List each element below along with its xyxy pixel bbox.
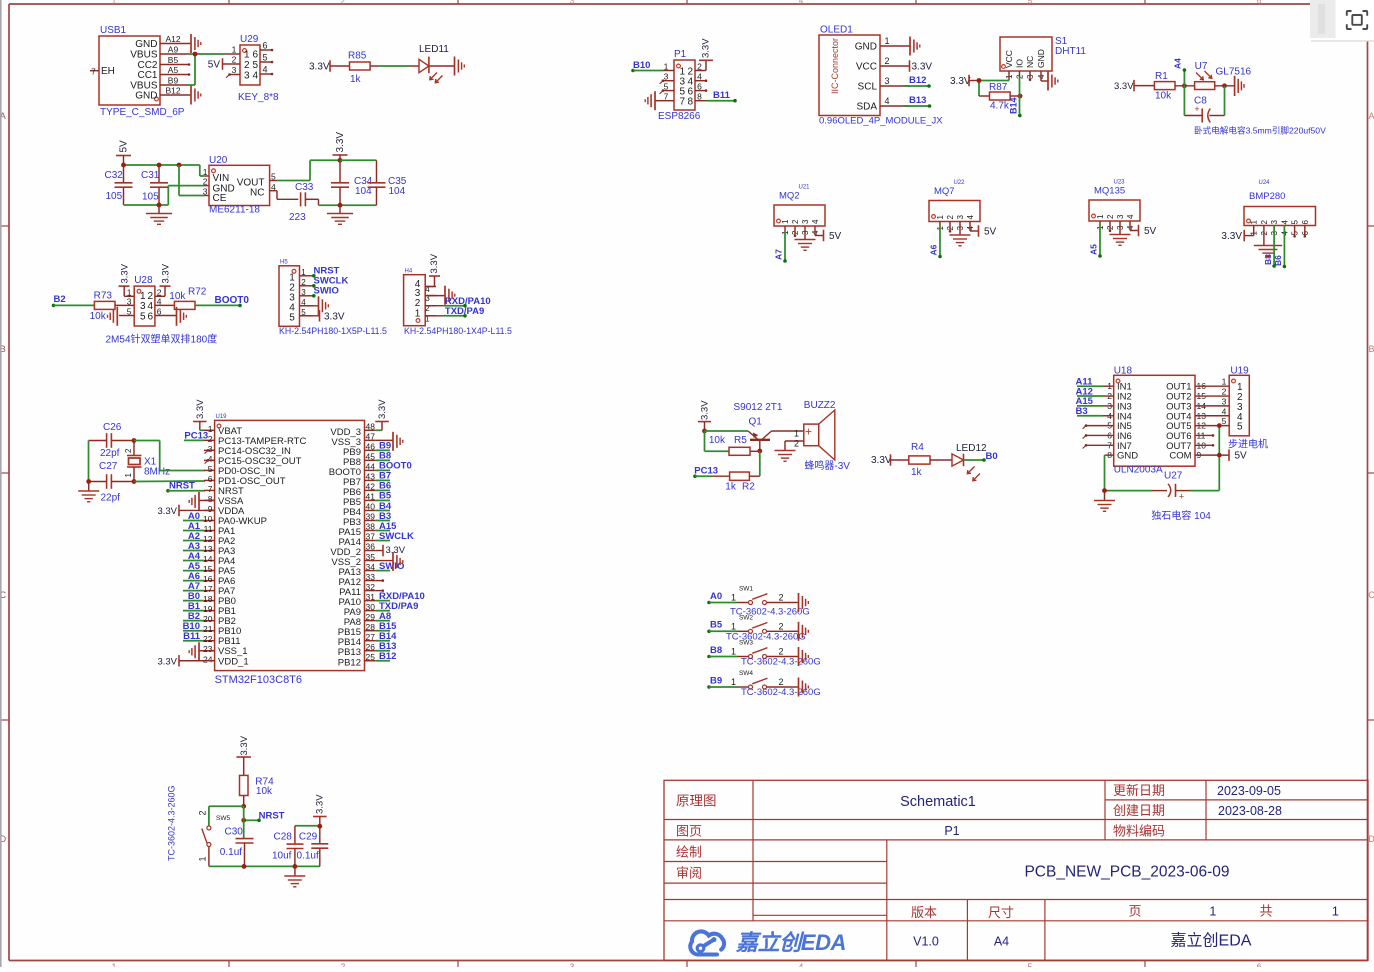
wire bottom bus <box>209 865 320 867</box>
resistor R73 10k <box>90 290 135 322</box>
svg-text:3.3V: 3.3V <box>315 794 326 814</box>
svg-text:B14: B14 <box>1009 97 1019 114</box>
junction C34 bottom <box>338 203 343 208</box>
svg-text:4: 4 <box>885 96 890 106</box>
svg-text:B10: B10 <box>633 60 650 71</box>
ground at U18 <box>1094 491 1115 512</box>
svg-text:GND: GND <box>855 42 877 53</box>
net label NRST at H5 pin1 <box>312 265 340 277</box>
svg-text:1: 1 <box>1096 214 1105 219</box>
svg-text:C32: C32 <box>105 170 124 181</box>
svg-text:KH-2.54PH180-1X5P-L11.5: KH-2.54PH180-1X5P-L11.5 <box>279 326 387 336</box>
svg-text:25: 25 <box>366 652 376 662</box>
svg-text:P1: P1 <box>944 824 959 838</box>
svg-text:B9: B9 <box>710 675 722 686</box>
svg-text:1: 1 <box>1332 905 1339 919</box>
svg-text:PCB_NEW_PCB_2023-06-09: PCB_NEW_PCB_2023-06-09 <box>1024 864 1229 881</box>
svg-text:4: 4 <box>799 0 804 6</box>
svg-text:D: D <box>1368 834 1374 844</box>
svg-text:3: 3 <box>127 296 132 306</box>
svg-text:3: 3 <box>244 71 250 82</box>
svg-text:H4: H4 <box>405 269 413 275</box>
svg-text:7: 7 <box>664 92 669 102</box>
svg-text:5: 5 <box>1028 0 1033 6</box>
net label A15 <box>376 521 397 532</box>
net label A0 <box>183 511 204 522</box>
svg-text:2: 2 <box>778 593 783 603</box>
net label A4 <box>183 551 204 562</box>
svg-text:PC13: PC13 <box>184 431 208 442</box>
svg-text:GND: GND <box>1117 451 1138 462</box>
svg-text:PC13: PC13 <box>694 466 718 477</box>
wire NC to C33 <box>270 191 299 200</box>
svg-text:1: 1 <box>244 50 250 61</box>
switch SW1 TC-3602 <box>707 586 810 618</box>
svg-text:TC-3602-4.3-260G: TC-3602-4.3-260G <box>726 632 806 643</box>
svg-text:19: 19 <box>203 604 213 614</box>
svg-text:B12: B12 <box>379 651 396 662</box>
svg-text:10uf: 10uf <box>272 851 292 862</box>
net label B3 at U18 pin4 <box>1076 406 1114 417</box>
resistor R72 10k <box>155 287 207 310</box>
svg-text:5: 5 <box>1291 220 1300 225</box>
svg-text:47: 47 <box>366 432 376 442</box>
svg-text:5: 5 <box>1237 422 1243 433</box>
wire net A6 at U22 pin1 <box>929 227 942 259</box>
svg-text:16: 16 <box>203 574 213 584</box>
wire R4 to LED12 <box>930 459 952 461</box>
net label B5 <box>376 491 392 502</box>
svg-text:2: 2 <box>341 963 346 968</box>
svg-text:A4: A4 <box>1173 58 1183 69</box>
svg-text:2: 2 <box>946 215 955 220</box>
svg-text:KEY_8*8: KEY_8*8 <box>238 92 279 103</box>
svg-text:36: 36 <box>366 542 376 552</box>
svg-text:5V: 5V <box>1144 226 1157 237</box>
connector U29 KEY_8*8 <box>226 34 279 103</box>
svg-text:28: 28 <box>366 622 376 632</box>
svg-text:U24: U24 <box>1258 180 1270 186</box>
net label B2 <box>52 294 95 307</box>
capacitor C29 0.1uf <box>297 827 329 867</box>
wire to Q1 emitter <box>705 430 749 432</box>
svg-text:3.3V: 3.3V <box>157 506 177 517</box>
power 3.3V at Q1 <box>698 400 711 431</box>
svg-text:USB1: USB1 <box>100 25 127 36</box>
svg-text:B5: B5 <box>168 55 179 65</box>
net label A15 at U18 pin3 <box>1076 396 1114 407</box>
wire ground bus right <box>319 204 377 206</box>
junction Q1 base node <box>757 449 762 454</box>
svg-text:5V: 5V <box>984 227 997 238</box>
LED LED11 <box>419 44 454 83</box>
svg-text:5: 5 <box>140 311 146 322</box>
svg-text:P1: P1 <box>674 49 687 60</box>
svg-text:1: 1 <box>885 36 890 46</box>
svg-text:版本: 版本 <box>911 905 937 920</box>
svg-text:B5: B5 <box>710 620 723 631</box>
svg-text:31: 31 <box>366 592 376 602</box>
svg-text:5V: 5V <box>1235 451 1248 462</box>
wire VOUT to 3.3V <box>270 160 340 180</box>
svg-text:48: 48 <box>366 422 376 432</box>
svg-text:物料编码: 物料编码 <box>1113 824 1165 839</box>
svg-text:C26: C26 <box>103 422 122 433</box>
svg-text:5: 5 <box>289 313 295 324</box>
svg-text:B13: B13 <box>909 95 926 106</box>
sensor module U22 MQ7 <box>929 180 980 235</box>
net label BOOT0 <box>195 295 249 307</box>
power flag 5V at U29 pin2 <box>208 58 226 70</box>
svg-text:1: 1 <box>232 45 237 55</box>
svg-text:R85: R85 <box>348 51 367 62</box>
resistor R2 1k <box>712 451 760 493</box>
svg-text:3.3V: 3.3V <box>700 400 711 420</box>
svg-text:27: 27 <box>366 632 376 642</box>
net label A8 <box>376 611 391 622</box>
svg-text:1: 1 <box>1209 905 1216 919</box>
svg-text:SDA: SDA <box>856 102 877 113</box>
svg-text:NC: NC <box>1025 56 1035 68</box>
svg-text:R72: R72 <box>188 287 207 298</box>
net label A2 <box>183 531 204 542</box>
svg-text:2: 2 <box>203 177 208 187</box>
net label SWIO <box>376 561 405 572</box>
svg-text:3.3V: 3.3V <box>157 656 177 667</box>
svg-text:3.3V: 3.3V <box>377 399 388 419</box>
ground at U28 pin5 <box>108 307 135 326</box>
svg-text:嘉立创EDA: 嘉立创EDA <box>735 930 846 955</box>
svg-text:1: 1 <box>731 593 736 603</box>
ground at VSS_2 <box>376 552 403 571</box>
svg-text:3: 3 <box>664 72 669 82</box>
net label NRST wire <box>166 481 205 493</box>
net label SWCLK at H5 pin2 <box>312 275 348 287</box>
ground at OLED1 pin1 <box>910 37 920 56</box>
ground at H4 pin3 <box>425 286 455 305</box>
capacitor C33 223 <box>289 182 319 223</box>
capacitor C32 105 <box>105 165 133 205</box>
svg-text:35: 35 <box>366 552 376 562</box>
svg-text:PB12: PB12 <box>338 657 361 668</box>
power 3.3V at VDD_1 <box>157 655 214 667</box>
svg-text:38: 38 <box>366 522 376 532</box>
junction left <box>86 479 91 484</box>
junction U7/C8 <box>1222 83 1227 88</box>
svg-text:1: 1 <box>781 219 790 224</box>
power 3.3V at VDD_3 <box>375 399 389 431</box>
svg-text:8MHz: 8MHz <box>144 467 170 478</box>
svg-text:0.1uf: 0.1uf <box>297 851 319 862</box>
svg-text:5V: 5V <box>119 140 130 153</box>
header H5 KH-2.54PH180-1X5P <box>279 260 387 337</box>
svg-text:U29: U29 <box>240 34 259 45</box>
svg-text:33: 33 <box>366 572 376 582</box>
svg-text:223: 223 <box>289 212 306 223</box>
net label SWCLK <box>376 531 414 542</box>
wire U7 to ground <box>1215 85 1235 87</box>
svg-text:14: 14 <box>203 554 213 564</box>
resistor R85 1k <box>348 51 370 86</box>
svg-text:17: 17 <box>203 584 213 594</box>
svg-text:4: 4 <box>1280 220 1289 225</box>
wire GND net U18 <box>1105 455 1153 490</box>
wire ground bus left <box>124 204 169 206</box>
wire DHT11 IO / net B14 <box>1009 76 1022 117</box>
wire COM to 5V <box>1195 426 1229 491</box>
svg-text:3.3V: 3.3V <box>195 399 206 419</box>
svg-text:GND: GND <box>1036 49 1046 68</box>
svg-text:SCL: SCL <box>858 82 878 93</box>
title block grid <box>664 780 1368 960</box>
svg-text:GL7516: GL7516 <box>1216 67 1252 78</box>
ground at U7 <box>1235 76 1244 96</box>
svg-text:3: 3 <box>570 963 575 968</box>
svg-text:BMP280: BMP280 <box>1249 191 1285 202</box>
svg-text:蜂鸣器-3V: 蜂鸣器-3V <box>804 459 850 472</box>
svg-text:13: 13 <box>203 544 213 554</box>
sensor module U21 MQ2 <box>774 185 825 240</box>
svg-text:STM32F103C8T6: STM32F103C8T6 <box>215 674 302 686</box>
svg-text:1: 1 <box>415 308 421 319</box>
power 3.3V at VDD_2 <box>376 545 406 557</box>
svg-text:C31: C31 <box>141 170 160 181</box>
ground at DHT11 pin4 <box>1048 72 1058 91</box>
wire GND pin to bus <box>168 186 209 205</box>
svg-text:B11: B11 <box>183 631 201 642</box>
switch SW2 TC-3602 <box>707 614 806 642</box>
net label B1 <box>183 601 204 612</box>
svg-text:3: 3 <box>1270 220 1279 225</box>
svg-text:8: 8 <box>688 97 694 108</box>
ground at SW2 <box>799 622 809 641</box>
svg-text:32: 32 <box>366 582 376 592</box>
svg-text:SWCLK: SWCLK <box>379 531 414 542</box>
net label A3 <box>183 541 204 552</box>
ground below C34 <box>327 205 353 224</box>
svg-text:尺寸: 尺寸 <box>988 905 1014 920</box>
net label B8 at BMP280 pin3 <box>1263 226 1276 268</box>
svg-text:LED11: LED11 <box>419 44 449 55</box>
switch SW4 TC-3602 <box>707 670 821 698</box>
connector U19 stepper <box>1222 366 1268 451</box>
svg-text:1: 1 <box>731 621 736 631</box>
svg-text:原理图: 原理图 <box>676 794 717 809</box>
net label A4 stub <box>1173 58 1187 86</box>
stub IN5 IN6 IN7 <box>1083 424 1114 448</box>
svg-text:U22: U22 <box>953 180 965 186</box>
junction at R87 right <box>1018 94 1023 99</box>
svg-text:3.3V: 3.3V <box>161 263 172 283</box>
svg-text:4: 4 <box>1222 406 1227 416</box>
svg-text:2: 2 <box>301 278 306 287</box>
svg-text:45: 45 <box>366 452 376 462</box>
ground at BMP280 pin2 <box>1254 246 1282 257</box>
ground at BUZZ2 pin2 <box>775 441 796 461</box>
svg-text:U19: U19 <box>216 414 228 420</box>
svg-text:37: 37 <box>366 532 376 542</box>
mcu U19 STM32F103C8T6 <box>203 414 376 686</box>
svg-text:1: 1 <box>198 856 208 861</box>
driver U18 ULN2003A <box>1107 366 1206 476</box>
svg-text:COM: COM <box>1169 451 1191 462</box>
svg-text:44: 44 <box>366 462 376 472</box>
power flag 5V at U20 input <box>116 140 131 165</box>
svg-text:15: 15 <box>203 564 213 574</box>
svg-text:SW1: SW1 <box>739 586 753 593</box>
svg-text:1: 1 <box>936 215 945 220</box>
svg-text:VDD_1: VDD_1 <box>218 656 249 667</box>
svg-text:SW2: SW2 <box>739 614 753 621</box>
svg-text:MQ2: MQ2 <box>779 191 800 202</box>
power 3.3V at VDDA <box>157 505 214 517</box>
svg-text:B2: B2 <box>54 294 66 305</box>
net label B9 at SW4 <box>710 675 722 686</box>
power 5V at U21 pin4 <box>824 230 842 242</box>
svg-text:2: 2 <box>778 647 783 657</box>
net label A6 <box>183 571 204 582</box>
power 3.3V at U28 pin2 <box>155 263 172 296</box>
net label B11 <box>706 90 737 102</box>
svg-text:ME6211-18: ME6211-18 <box>209 205 260 216</box>
svg-text:SW3: SW3 <box>739 640 753 647</box>
capacitor C26 22pf <box>89 422 135 459</box>
svg-text:4: 4 <box>811 219 820 224</box>
svg-text:SWIO: SWIO <box>314 285 339 296</box>
switch SW5 <box>167 785 231 866</box>
svg-text:U20: U20 <box>209 155 228 166</box>
svg-text:4: 4 <box>697 72 702 82</box>
net label A5 <box>183 561 204 572</box>
power 3.3V at C28/C29 <box>313 794 327 826</box>
svg-text:43: 43 <box>366 472 376 482</box>
browser overlay box <box>1310 0 1374 41</box>
svg-text:SW4: SW4 <box>739 670 753 677</box>
power 5V at U23 pin4 <box>1139 225 1157 237</box>
svg-text:DHT11: DHT11 <box>1055 46 1086 57</box>
svg-text:2: 2 <box>794 439 799 449</box>
svg-text:VCC: VCC <box>1004 50 1014 68</box>
power 3.3V at BMP280 pin1 <box>1221 230 1244 242</box>
svg-text:R4: R4 <box>911 442 924 453</box>
ground at SW4 <box>799 678 809 697</box>
svg-text:2: 2 <box>341 0 346 6</box>
svg-text:页: 页 <box>1128 904 1141 919</box>
ground at VSSA <box>189 492 214 511</box>
svg-text:0.96OLED_4P_MODULE_JX: 0.96OLED_4P_MODULE_JX <box>819 116 943 127</box>
svg-text:A12: A12 <box>165 34 180 44</box>
svg-text:CC1: CC1 <box>137 70 157 81</box>
svg-text:图页: 图页 <box>676 824 702 839</box>
ground below caps <box>78 482 99 502</box>
svg-text:H5: H5 <box>280 260 288 266</box>
svg-text:1: 1 <box>203 167 208 177</box>
fullscreen icon <box>1347 11 1367 29</box>
power 3.3V at DHT11 <box>950 75 979 87</box>
wire 3.3V to DHT11 pin1 <box>979 81 1009 97</box>
svg-text:卧式电解电容3.5mm引脚220uf50V: 卧式电解电容3.5mm引脚220uf50V <box>1194 125 1326 136</box>
net label B9 <box>376 441 391 452</box>
junction 5V bus <box>121 163 126 168</box>
svg-text:24: 24 <box>203 654 213 664</box>
svg-text:3: 3 <box>570 0 575 6</box>
svg-text:6: 6 <box>262 41 267 51</box>
net label B5 at SW2 <box>710 620 723 631</box>
net label B7 <box>376 471 391 482</box>
svg-text:22: 22 <box>203 634 213 644</box>
svg-text:1k: 1k <box>350 74 362 85</box>
svg-text:2: 2 <box>791 219 800 224</box>
power 5V at U22 pin4 <box>979 225 997 237</box>
svg-text:1: 1 <box>208 424 213 434</box>
svg-text:2: 2 <box>124 448 133 453</box>
resistor R87 4.7k <box>979 82 1020 112</box>
svg-text:6: 6 <box>1301 220 1310 225</box>
junction 3.3V C29 <box>317 824 322 829</box>
power 3.3V at H4 pin4 <box>425 253 440 286</box>
svg-text:5: 5 <box>208 464 213 474</box>
ground at SW1 <box>799 593 809 612</box>
resistor R74 10k <box>240 775 275 806</box>
svg-text:3.3V: 3.3V <box>429 253 440 273</box>
svg-text:1: 1 <box>112 963 117 968</box>
ground at U28 pin6 <box>155 307 186 326</box>
net label A0 at SW1 <box>710 591 722 602</box>
svg-text:22pf: 22pf <box>101 493 121 504</box>
svg-text:105: 105 <box>106 191 123 202</box>
svg-text:22pf: 22pf <box>100 448 120 459</box>
svg-text:104: 104 <box>389 186 406 197</box>
photoresistor U7 GL7516 <box>1195 61 1252 90</box>
svg-text:创建日期: 创建日期 <box>1113 803 1165 818</box>
svg-text:41: 41 <box>366 492 376 502</box>
svg-text:3: 3 <box>1116 214 1125 219</box>
right zone letters <box>1368 111 1374 844</box>
svg-text:5: 5 <box>1028 963 1033 968</box>
connector P1 ESP8266 <box>658 49 707 122</box>
svg-text:5V: 5V <box>829 231 842 242</box>
svg-text:B3: B3 <box>1076 406 1088 417</box>
svg-text:5: 5 <box>1222 416 1227 426</box>
svg-text:6: 6 <box>208 474 213 484</box>
ground at USB1 pin B12 <box>188 86 201 105</box>
net label TXD/PA9 <box>376 601 419 612</box>
svg-text:A9: A9 <box>168 45 179 55</box>
svg-text:共: 共 <box>1259 904 1272 919</box>
svg-text:10k: 10k <box>169 291 186 302</box>
svg-text:1: 1 <box>112 0 117 6</box>
junction R74 bottom <box>241 804 246 809</box>
svg-text:4: 4 <box>208 454 213 464</box>
svg-text:7: 7 <box>91 68 96 77</box>
svg-text:18: 18 <box>203 594 213 604</box>
svg-text:3: 3 <box>1222 396 1227 406</box>
svg-text:2: 2 <box>778 677 783 687</box>
svg-text:20: 20 <box>203 614 213 624</box>
svg-text:3.3V: 3.3V <box>309 62 330 73</box>
svg-text:2M54针双塑单双排180度: 2M54针双塑单双排180度 <box>106 333 218 346</box>
net label RXD/PA10 at H4 pin2 <box>425 296 490 308</box>
net label SWIO at H5 pin3 <box>312 285 339 297</box>
svg-text:0.1uf: 0.1uf <box>220 847 242 858</box>
svg-text:GND: GND <box>135 39 157 50</box>
regulator U20 ME6211-18 <box>203 155 276 216</box>
svg-text:TXD/PA9: TXD/PA9 <box>445 306 484 317</box>
capacitor C30 0.1uf <box>220 806 254 866</box>
svg-text:VIN: VIN <box>213 173 230 184</box>
svg-text:1: 1 <box>731 677 736 687</box>
junction 3.3V <box>338 158 343 163</box>
